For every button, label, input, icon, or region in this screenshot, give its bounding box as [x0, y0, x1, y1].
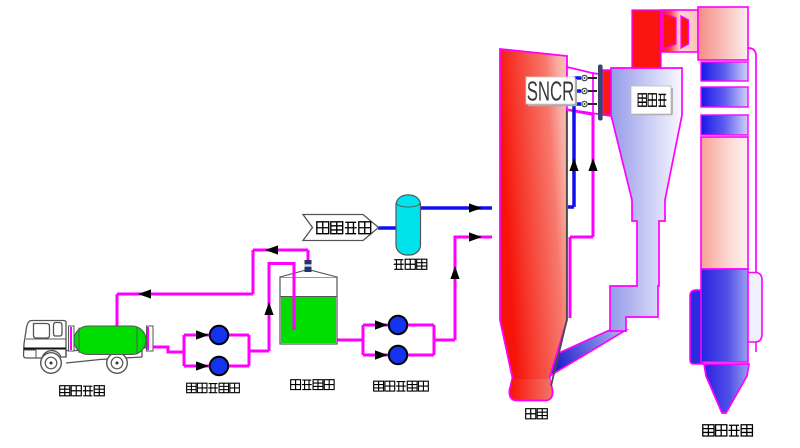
- injection nozzle 2: [582, 88, 597, 93]
- label 氨水输送泵: [374, 381, 429, 391]
- boiler 锅炉 body: [500, 49, 567, 401]
- flue right tab: [745, 273, 762, 343]
- flue blue band 2: [701, 87, 748, 107]
- crossover flap 2: [681, 16, 689, 48]
- pump unloading A: [210, 326, 228, 344]
- arrow up on feed riser: [450, 266, 459, 279]
- wire ammonia feed riser to boiler: [455, 237, 492, 340]
- flue right duct lower stub: [755, 342, 757, 352]
- label 锅炉: [526, 409, 548, 419]
- dip tube inside storage tank: [293, 264, 296, 331]
- label 氨水储罐: [291, 380, 334, 390]
- truck front wheel: [41, 353, 62, 374]
- separator body 分离器: [610, 68, 682, 331]
- label 尾部烟道: [703, 425, 753, 436]
- storage tank vent valve: [305, 260, 312, 272]
- arrow right transfer bottom branch: [375, 350, 388, 359]
- truck bed front rack: [69, 326, 75, 351]
- flue column top section: [698, 7, 748, 60]
- wire ammonia line behind boiler right side: [570, 114, 593, 318]
- wire vent drop into tank: [307, 250, 310, 262]
- pump transfer A: [389, 316, 407, 334]
- wire compressed air line into air tank: [378, 226, 396, 230]
- truck rear wheel: [107, 353, 128, 374]
- label 氨水槽车: [60, 386, 105, 396]
- arrow right transfer top branch: [375, 320, 388, 329]
- injection nozzle 1: [582, 75, 597, 80]
- arrow right unloading top branch: [196, 330, 209, 339]
- flue bottom blue section: [701, 269, 748, 362]
- wire riser from pumps to storage tank dip tube: [269, 264, 294, 352]
- arrow right on air line: [469, 203, 482, 212]
- arrow left on return line: [138, 289, 151, 298]
- flue pink middle section: [701, 137, 748, 269]
- crossover duct band: [661, 10, 698, 52]
- air tank 储气罐: [396, 195, 421, 255]
- pump transfer B: [389, 346, 407, 364]
- wire vapor return top (tank to junction): [117, 250, 308, 327]
- label 氨水卸载泵: [187, 383, 240, 393]
- wire transfer pump parallel box: [363, 325, 455, 355]
- truck dark beltline: [24, 348, 67, 350]
- wire air line up boiler right side: [568, 77, 581, 207]
- SNCR label box: [526, 77, 577, 105]
- arrow right unloading bottom branch: [196, 361, 209, 370]
- truck bed rear rack: [147, 326, 154, 351]
- wire unloading pump parallel box: [184, 335, 269, 366]
- separator label box 分离器: [631, 86, 673, 115]
- injector manifold bar: [598, 65, 603, 121]
- boiler top-right duct region: [567, 67, 611, 116]
- svg-text:SNCR: SNCR: [527, 75, 575, 107]
- red duct to separator: [603, 70, 614, 115]
- crossover flap 1: [663, 13, 676, 49]
- flue cone: [704, 364, 749, 413]
- separator red top duct: [632, 10, 661, 68]
- flue blue band 1: [701, 62, 748, 81]
- wire storage tank to transfer pumps: [337, 339, 363, 342]
- banner text 压缩空气: [317, 222, 371, 234]
- injection nozzle 3: [582, 101, 597, 106]
- flue thin side duct: [748, 48, 756, 274]
- flue blue band 3: [701, 115, 748, 135]
- separator label text: [638, 94, 666, 106]
- arrow right on feed line: [469, 232, 482, 241]
- wire air line to boiler: [420, 206, 492, 210]
- arrow up on riser: [264, 302, 273, 315]
- flue left tab: [690, 290, 703, 364]
- pump unloading B: [210, 357, 228, 375]
- label 储气罐: [394, 259, 427, 269]
- storage tank 氨水储罐: [280, 262, 337, 344]
- arrow up on ammonia riser at boiler: [588, 158, 597, 171]
- arrow up on air riser at boiler: [569, 158, 578, 171]
- compressed air banner 压缩空气: [303, 215, 379, 241]
- arrow left on vapor line: [265, 245, 278, 254]
- truck green tank capsule: [74, 326, 146, 355]
- wire truck tank to unloading pumps: [138, 347, 184, 352]
- truck 氨水槽车: [24, 321, 143, 364]
- diagonal return pipe separator to boiler: [532, 330, 626, 377]
